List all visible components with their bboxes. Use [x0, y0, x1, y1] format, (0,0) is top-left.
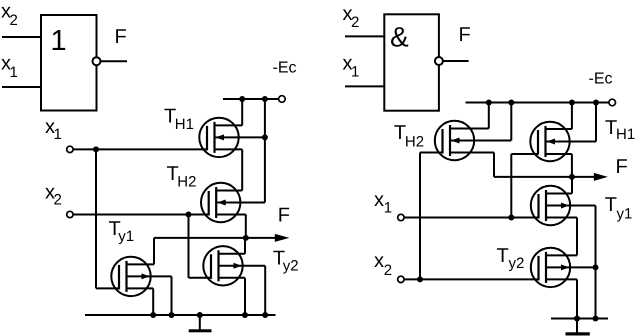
U2 input wire x2 — [345, 35, 384, 37]
wire TH2 drain stub (right) — [450, 128, 489, 130]
wire TH2 source stub — [216, 214, 246, 216]
junction rail / TH1 drain (right) — [569, 100, 575, 106]
wire TH1 substrate stub (right) — [546, 141, 597, 143]
wire TH1 source stub — [215, 148, 243, 150]
input terminal x2 (left) — [67, 211, 73, 217]
wire Ty2 drain stub — [219, 253, 246, 255]
wire TH1 gate down to x1 (right) — [510, 154, 512, 218]
wire Ty2 substrate stub — [219, 265, 266, 267]
wire substrate bus to ground (right) — [595, 206, 597, 319]
svg-text:y1: y1 — [617, 206, 633, 223]
node x1 branch junction — [93, 146, 99, 152]
ground symbol (left) — [199, 315, 201, 330]
svg-text:2: 2 — [384, 262, 392, 279]
svg-text:y2: y2 — [509, 255, 525, 272]
svg-text:1: 1 — [51, 25, 67, 57]
wire Ty1 drain stub — [127, 263, 155, 265]
wire substrate bus (rail to TH2) — [264, 99, 266, 203]
svg-text:2: 2 — [54, 192, 62, 209]
U1 inversion bubble — [93, 57, 101, 65]
junction rail / TH2 drain (right) — [486, 100, 492, 106]
junction on rail at substrate bus — [262, 96, 268, 102]
junction substrate bus / ground (right) — [593, 316, 599, 322]
wire x2 to TH2 gate — [73, 214, 209, 216]
wire TH2 source to F line (right) — [493, 153, 495, 177]
wire TH1 substrate to rail (right) — [595, 103, 597, 142]
wire Ty1 substrate to ground — [171, 276, 173, 315]
junction rail / TH1 substrate (right) — [593, 100, 599, 106]
logic gate U2 (NAND, symbol &) — [384, 14, 439, 110]
svg-text:1: 1 — [384, 199, 392, 216]
svg-text:1: 1 — [351, 64, 359, 81]
output line F (left) — [154, 237, 277, 239]
svg-text:-Ec: -Ec — [273, 60, 297, 77]
wire TH2 substrate to rail (right) — [510, 103, 512, 141]
junction Ty2 source / ground (right) — [574, 316, 580, 322]
svg-text:F: F — [459, 24, 471, 46]
wire TH2 substrate stub (right) — [450, 140, 511, 142]
wire x2 to Ty2 gate (right) — [404, 278, 539, 280]
wire TH1 source stub (right) — [546, 153, 572, 155]
U2 inversion bubble — [435, 57, 443, 65]
wire Ty1 substrate stub — [127, 275, 172, 277]
wire Ty2 source to ground (right) — [576, 279, 578, 318]
svg-text:F: F — [115, 26, 127, 48]
junction on F line (left) — [243, 235, 249, 241]
-Ec terminal (left) — [279, 96, 286, 103]
U1 output wire — [101, 60, 127, 62]
wire TH1 drain to rail (right) — [571, 103, 573, 130]
wire TH1 drain stub — [215, 124, 243, 126]
wire Ty1 source to Ty2 drain (right) — [576, 218, 578, 256]
U2 output wire — [443, 60, 469, 62]
wire x2 branch to Ty2 gate — [189, 277, 212, 279]
transistor TH2 (left) — [201, 183, 240, 222]
node x2 branch junction — [186, 212, 192, 218]
wire Ty1 drain to F line — [153, 238, 155, 265]
transistor TH2 (right) — [435, 121, 474, 160]
wire TH1 substrate stub — [215, 136, 265, 138]
junction rail / TH2 substrate (right) — [508, 100, 514, 106]
junction TH1 substrate / bus — [262, 134, 268, 140]
wire Ty1 drain stub (right) — [546, 193, 572, 195]
-Ec terminal (right) — [609, 99, 616, 106]
svg-text:1: 1 — [54, 126, 62, 143]
wire Ty1 source stub (right) — [546, 217, 577, 219]
transistor TH1 (right) — [530, 122, 569, 161]
svg-text:F: F — [616, 156, 628, 178]
wire TH1 source to TH2 drain — [241, 149, 243, 190]
transistor Ty2 (left) — [203, 246, 242, 285]
output arrowhead F (left) — [275, 234, 290, 242]
U2 input wire x1 — [345, 85, 384, 87]
svg-text:&: & — [390, 22, 409, 53]
input terminal x1 (right) — [398, 214, 404, 220]
svg-text:H1: H1 — [175, 116, 194, 133]
logic gate U1 (NOR, symbol 1) — [41, 15, 97, 111]
junction F line / TH1 source / Ty1 drain (right) — [569, 174, 575, 180]
junction Ty2 substrate / bus (right) — [593, 264, 599, 270]
wire TH2 source stub (right) — [450, 152, 494, 154]
-Ec supply rail (left) — [223, 98, 279, 100]
transistor Ty1 (left) — [111, 257, 150, 296]
junction Ty1 source / ground — [150, 312, 156, 318]
wire Ty2 drain stub (right) — [546, 254, 577, 256]
ground symbol (right) — [576, 319, 578, 333]
wire TH1 drain stub (right) — [546, 128, 572, 130]
svg-text:T: T — [497, 245, 509, 267]
junction on rail at TH1 drain — [239, 96, 245, 102]
wire TH2 drain to rail (right) — [488, 103, 490, 129]
ground rail (left) — [85, 314, 276, 316]
wire Ty1 substrate stub (right) — [546, 205, 596, 207]
wire TH2 gate down to x2 (right) — [419, 153, 421, 280]
transistor TH1 (left) — [199, 118, 238, 157]
wire x1 to Ty1 gate (right) — [404, 217, 539, 219]
wire TH2 gate lead (right) — [420, 152, 443, 154]
wire Ty1 source stub — [127, 287, 154, 289]
wire Ty2 source stub (right) — [546, 278, 577, 280]
junction x2 / TH2 gate (right) — [417, 276, 423, 282]
wire TH1 drain to rail — [241, 99, 243, 125]
wire x1 branch to Ty1 gate — [96, 287, 119, 289]
-Ec supply rail (right) — [466, 102, 609, 104]
svg-text:x: x — [374, 250, 384, 272]
U1 input wire x1 — [2, 86, 41, 88]
ground rail (right) — [551, 318, 608, 320]
junction x1 / TH1 gate (right) — [508, 215, 514, 221]
wire Ty2 source stub — [219, 277, 246, 279]
svg-text:H2: H2 — [405, 134, 424, 151]
wire Ty2 source to ground — [244, 278, 246, 315]
wire TH1 gate lead (right) — [511, 153, 538, 155]
svg-text:x: x — [374, 189, 384, 211]
wire x1 branch down — [95, 149, 97, 288]
junction Ty1 substrate / ground — [169, 312, 175, 318]
junction ground tap — [197, 312, 203, 318]
wire TH2 source to F line — [245, 215, 247, 238]
output line F (right) — [494, 176, 596, 178]
svg-text:H2: H2 — [177, 173, 196, 190]
svg-text:-Ec: -Ec — [589, 71, 613, 88]
wire Ty1 drain to F line (right) — [571, 177, 573, 194]
svg-text:H1: H1 — [616, 126, 635, 143]
svg-text:2: 2 — [10, 12, 18, 29]
wire TH1 source to F line (right) — [571, 154, 573, 177]
svg-text:F: F — [278, 205, 290, 227]
wire x1 to TH1 gate — [73, 148, 207, 150]
junction Ty2 source / ground — [242, 312, 248, 318]
transistor Ty2 (right) — [531, 248, 570, 287]
svg-text:T: T — [605, 194, 617, 216]
svg-text:2: 2 — [351, 14, 359, 31]
svg-text:y1: y1 — [118, 228, 134, 245]
svg-text:y2: y2 — [283, 258, 299, 275]
wire Ty2 substrate stub (right) — [546, 266, 596, 268]
output arrowhead F (right) — [594, 173, 608, 181]
wire Ty1 source to ground — [152, 288, 154, 315]
input terminal x1 (left) — [67, 146, 73, 152]
junction Ty2 substrate / ground — [262, 312, 268, 318]
U1 input wire x2 — [2, 36, 41, 38]
wire Ty2 drain to F line — [244, 238, 246, 254]
wire x2 branch down — [188, 215, 190, 278]
transistor Ty1 (right) — [531, 186, 570, 225]
wire Ty2 substrate to ground — [264, 266, 266, 315]
wire TH2 drain stub — [216, 190, 242, 192]
input terminal x2 (right) — [398, 276, 404, 282]
svg-text:1: 1 — [10, 64, 18, 81]
wire TH2 substrate stub — [216, 202, 265, 204]
